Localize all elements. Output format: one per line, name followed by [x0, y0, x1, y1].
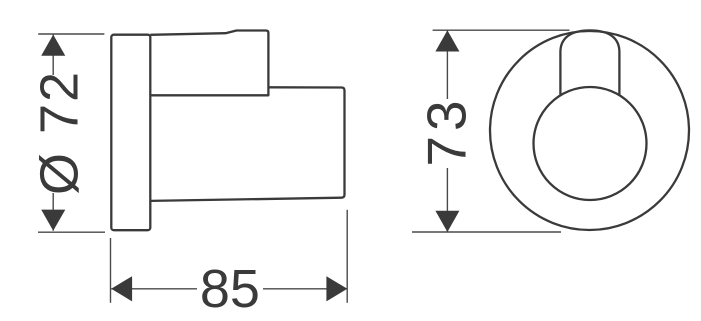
arrowhead left (85): [111, 276, 132, 301]
body cylinder (side view): [150, 87, 344, 201]
arrowhead down (dia 72): [41, 210, 65, 231]
label dia 72 background: [38, 75, 79, 193]
label 85 background: [197, 266, 263, 310]
extension line bottom (dia 72): [38, 231, 105, 233]
U clamp (front view holder opening): [560, 30, 619, 95]
dimension line dia 72: [52, 35, 54, 231]
dimension line 73: [446, 30, 448, 232]
arrowhead down (73): [435, 211, 459, 232]
svg-text:73: 73: [415, 95, 477, 166]
svg-text:85: 85: [200, 259, 260, 319]
arrowhead up (dia 72): [41, 35, 65, 56]
extension line top (dia 72): [38, 33, 104, 35]
big circle (front view escutcheon): [490, 31, 689, 230]
arrowhead up (73): [435, 30, 459, 51]
extension line bottom (73): [412, 231, 561, 233]
holder arm (side view top bracket): [150, 31, 268, 96]
wall plate (side view, escutcheon): [111, 35, 150, 231]
extension line left (85): [110, 238, 112, 303]
extension line right (85): [346, 210, 348, 303]
dimension line 85: [111, 288, 347, 290]
svg-text:Ø 72: Ø 72: [30, 70, 90, 195]
extension line top (73): [433, 29, 570, 31]
inner circle (front view cup): [534, 87, 647, 200]
arrowhead right (85): [326, 276, 347, 301]
label 73 background: [426, 99, 467, 168]
